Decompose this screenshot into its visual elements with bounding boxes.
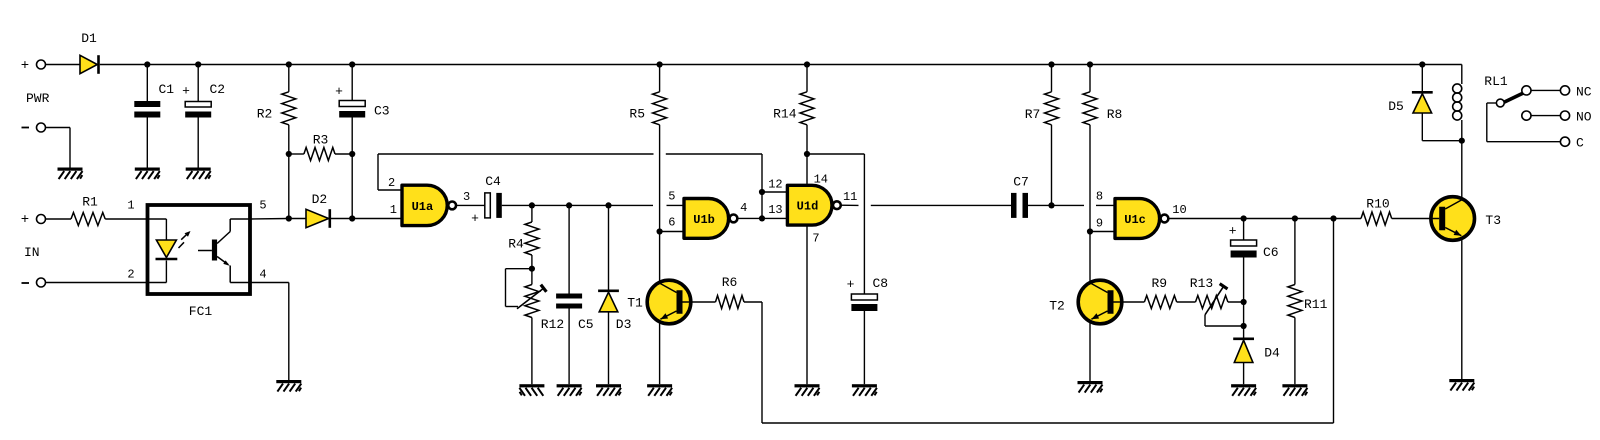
junction node D5/rail [1419,61,1425,67]
pin labels U1b [668,189,747,229]
resistor R6 [691,275,762,309]
svg-text:R1: R1 [82,195,98,210]
svg-text:R10: R10 [1366,197,1389,212]
svg-text:2: 2 [127,268,134,282]
terminal IN + [21,212,46,260]
svg-text:R7: R7 [1025,107,1041,122]
svg-text:4: 4 [259,268,266,282]
svg-text:R6: R6 [722,275,738,290]
ground PWR- [58,168,83,180]
junction node A/C5 [566,202,572,208]
wire C6 stem [1243,219,1245,338]
terminal IN - [22,278,46,287]
wire FC1 pin5 row [250,218,306,221]
svg-text:4: 4 [740,201,747,215]
junction node C1/rail [144,61,150,67]
svg-text:T2: T2 [1049,299,1065,314]
wire D2 to node [331,218,352,220]
svg-text:T3: T3 [1485,213,1501,228]
svg-text:+: + [847,277,855,292]
junction node C6/out [1241,215,1247,221]
wire C5 stems [568,205,570,384]
junction node R2/rail [286,61,292,67]
svg-text:R13: R13 [1190,276,1213,291]
svg-text:RL1: RL1 [1484,74,1508,89]
wire C2 stems [197,65,199,168]
wire U1b out riser [761,154,763,218]
junction node R14/rail [804,61,810,67]
capacitor C1 [134,82,174,118]
junction node pin5/R2 [286,215,292,221]
junction node R5/rail [657,61,663,67]
capacitor C7 [1011,175,1029,218]
junction node R8/rail [1087,61,1093,67]
wire U1c pin9 [1090,231,1115,233]
resistor R7 [1025,65,1059,206]
ground C2 [186,168,211,180]
svg-text:U1a: U1a [412,200,434,214]
wire pin14 stem [806,154,808,185]
svg-text:U1b: U1b [693,213,715,227]
wire T1 emitter to ground [659,322,661,384]
junction node A/D3 [605,202,611,208]
resistor R13 (trimmer) [1190,276,1244,308]
junction node R7/C7 [1048,202,1054,208]
wire U1b pin6 [660,231,684,233]
wire T3 emitter to ground [1461,238,1463,379]
svg-text:+: + [21,212,29,228]
svg-text:PWR: PWR [26,91,50,106]
ground C8 [852,384,877,396]
wire row A to U1b pin5 [532,204,684,206]
svg-text:2: 2 [388,176,395,190]
capacitor C2 [182,82,225,118]
wire FC1 pin5 internal [230,218,250,220]
capacitor C6 [1229,224,1279,261]
ground T2 [1078,381,1103,393]
ground D3 [596,384,621,396]
wire D4 to ground [1243,363,1245,385]
nand gate U1a [402,185,456,225]
junction node R2/R3 [286,151,292,157]
svg-text:R11: R11 [1304,297,1328,312]
light arrow inside FC1 [179,231,191,248]
wire feedback into U1a pin2 [378,154,402,190]
wire PWR- to ground [46,128,71,168]
ground C5 [557,384,582,396]
junction node D2/C3/U1a pin1 [349,215,355,221]
capacitor C5 [556,294,594,333]
svg-text:7: 7 [812,232,819,246]
svg-text:D3: D3 [616,317,632,332]
resistor R10 [1361,197,1431,226]
svg-text:D2: D2 [312,192,328,207]
wire C4 to node A [502,204,532,206]
transistor T1 [627,280,691,324]
wire C8 to ground [863,311,865,384]
pin labels U1a 2 and 3 [388,176,470,204]
diode D1 [80,31,99,74]
svg-text:C: C [1576,135,1584,150]
svg-text:10: 10 [1172,203,1186,217]
relay RL1 contacts NC NO C [1487,84,1592,150]
svg-text:U1d: U1d [797,200,819,214]
junction node pin12 [759,189,765,195]
svg-text:13: 13 [768,203,782,217]
resistor R1 [46,195,148,226]
LED inside FC1 [156,240,178,259]
wire U1b output [736,217,762,219]
svg-text:C3: C3 [374,104,390,119]
nand gate U1b [684,199,737,239]
ground D4 [1231,384,1256,396]
resistor R12 (trimmer) [525,269,564,385]
svg-text:R2: R2 [257,107,273,122]
svg-text:C4: C4 [485,174,501,189]
wire T2 collector [1089,232,1091,283]
wire D5 stems [1422,65,1462,141]
junction node coil/T3/D5 [1459,138,1465,144]
wiper arrow R12 [517,285,546,309]
ground R12 [519,384,544,396]
svg-text:5: 5 [668,189,675,203]
svg-text:1: 1 [390,203,397,217]
svg-text:+: + [471,211,479,226]
wire FC1 pin4 internal [230,282,250,284]
transistor T3 [1431,197,1501,241]
wire top supply rail [100,64,1462,66]
svg-text:NO: NO [1576,109,1592,124]
resistor R11 [1288,219,1328,385]
svg-text:R3: R3 [313,133,329,148]
wire C7 to U1c pin8 [1028,204,1115,206]
diode D3 [598,291,631,332]
diode D4 [1233,339,1280,363]
svg-text:R5: R5 [629,107,645,122]
svg-text:+: + [335,84,343,99]
diode D5 [1388,92,1433,114]
transistor T2 [1049,280,1122,324]
junction node R14/pin14 [804,151,810,157]
wire FC1 pin4 to ground [250,283,289,381]
wire U1d output [840,204,1011,206]
wire R2 lower segment [288,154,290,219]
ground FC1 pin4 [276,380,301,392]
terminal PWR - [22,123,46,132]
wire T2 emitter to ground [1089,322,1091,381]
svg-text:R4: R4 [508,237,524,252]
wire U1d pin7 to ground [806,225,808,384]
resistor R5 [629,65,666,232]
svg-text:T1: T1 [627,296,643,311]
svg-text:U1c: U1c [1124,213,1146,227]
svg-text:C6: C6 [1263,245,1279,260]
svg-text:C7: C7 [1013,175,1029,190]
wire IN- to FC1 pin2 [46,282,148,284]
resistor R14 [773,65,814,155]
diode D2 [306,192,330,228]
svg-text:9: 9 [1096,216,1103,230]
junction node feedback/out [1330,215,1336,221]
wiper arrow R13 [1205,284,1228,315]
svg-text:+: + [182,84,190,99]
svg-text:IN: IN [24,245,40,260]
wire to U1a pin1 [352,218,402,220]
junction node R7/rail [1048,61,1054,67]
wire R13 wiper link [1205,315,1244,326]
svg-text:C5: C5 [578,317,594,332]
capacitor C3 [335,84,390,119]
svg-text:R14: R14 [773,107,797,122]
junction node R13/C6 [1241,299,1247,305]
nand gate U1d [787,185,840,225]
pin labels U1d [768,173,857,246]
svg-text:R8: R8 [1107,107,1123,122]
svg-text:5: 5 [259,199,266,213]
resistor R4 [508,205,539,268]
svg-text:11: 11 [843,190,857,204]
junction node R5/U1b pin6 [657,228,663,234]
pin 1 label U1a [390,203,397,217]
junction node wiper/D4 [1241,323,1247,329]
junction node R3/C3 [349,151,355,157]
wire R12 wiper loop [506,269,532,307]
wire T1 collector [659,232,661,283]
wire feedback U1b out to U1a pin2 [378,153,762,155]
wire C3 stems [351,65,353,219]
svg-text:C8: C8 [873,276,889,291]
svg-text:R9: R9 [1151,276,1167,291]
svg-text:C1: C1 [159,82,175,97]
wire to U1d pin13 [762,217,787,219]
junction node R11/out [1292,215,1298,221]
svg-text:D1: D1 [81,31,97,46]
resistor R8 [1083,65,1122,232]
relay RL1 coil [1453,65,1508,141]
junction node A (C4/R4) [529,202,535,208]
wire T3 collector [1461,141,1463,199]
capacitor C4 [471,174,502,226]
svg-text:D5: D5 [1388,99,1404,114]
junction node R4/R12 [529,266,535,272]
terminal PWR + / PWR label [21,58,50,106]
svg-text:+: + [21,58,29,74]
svg-text:+: + [1229,224,1237,239]
junction node C2/rail [195,61,201,67]
wire bottom feedback R6 to U1c out [762,219,1334,424]
svg-text:1: 1 [127,199,134,213]
nand gate U1c [1115,199,1168,239]
svg-text:NC: NC [1576,84,1592,99]
ground U1d pin7 [795,384,820,396]
wire node R14 to C8 [807,154,864,294]
resistor R2 [257,65,296,155]
pin labels U1c [1096,189,1187,230]
wire PWR+ to D1 [46,64,81,66]
wire D3 stems [608,205,610,384]
ground C1 [135,168,160,180]
ground T3 [1449,379,1474,391]
ground R11 [1282,384,1307,396]
svg-text:3: 3 [463,190,470,204]
wire FC1 LED leads [148,219,167,283]
optocoupler FC1 body [127,199,266,320]
wire to U1d pin12 [762,191,787,193]
wire U1c output row [1168,218,1361,220]
svg-text:12: 12 [768,178,782,192]
svg-text:C2: C2 [210,82,226,97]
junction node C3/rail [349,61,355,67]
svg-text:R12: R12 [541,317,564,332]
junction node U1b out [759,215,765,221]
ground T1 [647,384,672,396]
svg-text:FC1: FC1 [189,304,213,319]
svg-text:D4: D4 [1264,345,1280,360]
resistor R3 [289,133,352,161]
svg-text:6: 6 [668,216,675,230]
junction node R8/pin9/T2 [1087,228,1093,234]
phototransistor inside FC1 [198,219,230,283]
wire C1 stems [146,65,148,168]
resistor R9 [1122,276,1196,308]
capacitor C8 [847,276,889,311]
wire U1a output [456,204,484,206]
svg-text:8: 8 [1096,189,1103,203]
